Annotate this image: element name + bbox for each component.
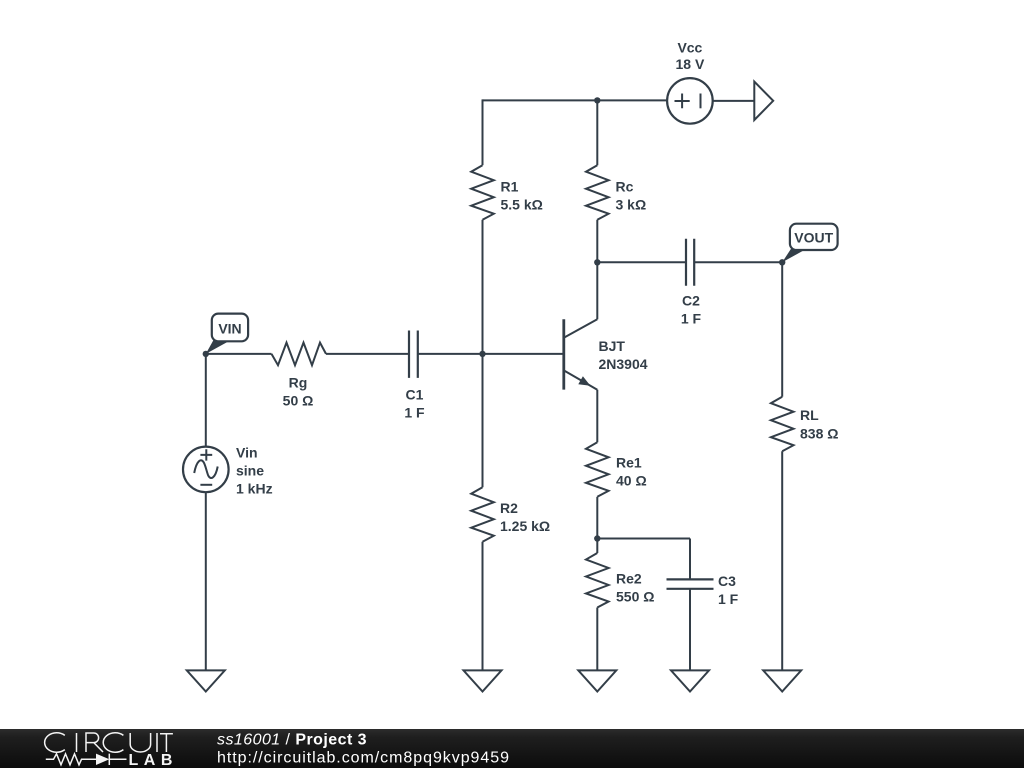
svg-text:C1: C1: [406, 387, 424, 403]
svg-text:50 Ω: 50 Ω: [283, 393, 314, 409]
svg-text:1 F: 1 F: [404, 405, 425, 421]
wire C1 to base node to BJT base: [418, 353, 564, 355]
resistor R2: [471, 487, 494, 542]
wire base node to R2: [482, 354, 484, 487]
capacitor C3: [667, 579, 714, 588]
resistor Rc: [586, 165, 609, 220]
svg-text:1 F: 1 F: [718, 591, 739, 607]
resistor R1: [471, 165, 494, 220]
svg-text:sine: sine: [236, 463, 264, 479]
svg-text:1 F: 1 F: [681, 311, 702, 327]
ground (rotated, right of Vcc): [754, 82, 773, 120]
svg-text:40 Ω: 40 Ω: [616, 473, 647, 489]
svg-text:VIN: VIN: [218, 320, 241, 336]
svg-text:RL: RL: [800, 407, 819, 423]
wire emitter to Re1: [596, 390, 598, 443]
svg-text:2N3904: 2N3904: [599, 356, 648, 372]
wire R1 bottom to base node: [482, 220, 484, 354]
wire C3 bottom lead to ground: [689, 589, 691, 671]
svg-text:BJT: BJT: [599, 338, 626, 354]
wire Vin source to ground: [205, 492, 207, 670]
svg-text:838 Ω: 838 Ω: [800, 426, 838, 442]
node emitter junction: [594, 535, 600, 541]
wire Rg to C1: [326, 353, 409, 355]
resistor Re2: [586, 553, 609, 608]
wire Vcc source to ground flag: [713, 100, 754, 102]
Q1 emitter lead: [564, 370, 598, 389]
svg-text:R1: R1: [501, 179, 519, 195]
capacitor C1: [409, 331, 418, 378]
wire Re1 to emitter node: [596, 497, 598, 553]
node VIN junction: [203, 351, 209, 357]
svg-text:550 Ω: 550 Ω: [616, 589, 654, 605]
ground (below R2): [464, 670, 502, 691]
svg-text:5.5 kΩ: 5.5 kΩ: [501, 197, 543, 213]
Vin plus sign: [200, 449, 212, 460]
CircuitLab logo wordmark CIRCUIT: [45, 733, 173, 752]
wire VOUT node to RL: [781, 262, 783, 396]
svg-text:3 kΩ: 3 kΩ: [616, 197, 647, 213]
node base junction: [479, 351, 485, 357]
node junction top rail / Rc: [594, 97, 600, 103]
svg-text:C3: C3: [718, 573, 736, 589]
resistor Re1: [586, 442, 609, 497]
wire collector vertical: [596, 262, 598, 319]
svg-text:http://circuitlab.com/cm8pq9kv: http://circuitlab.com/cm8pq9kvp9459: [217, 750, 510, 767]
svg-text:R2: R2: [500, 500, 518, 516]
svg-text:Vin: Vin: [236, 445, 258, 461]
Vin minus sign: [200, 484, 212, 486]
svg-text:Re2: Re2: [616, 571, 642, 587]
wire top rail from R1 top to Vcc source: [483, 99, 667, 101]
wire C3 top lead: [689, 539, 691, 580]
ground (below Vin): [187, 670, 225, 691]
wire VIN node to Rg: [206, 353, 272, 355]
Q1 emitter arrow: [578, 376, 590, 386]
wire C2 to VOUT node: [694, 261, 782, 263]
wire Rc bottom to collector node: [596, 220, 598, 263]
wire top rail to R1: [482, 99, 484, 165]
Vin sine wave: [194, 460, 218, 478]
wire top rail to Rc: [596, 100, 598, 165]
resistor RL: [771, 397, 794, 452]
wire RL to ground: [781, 451, 783, 670]
svg-text:Rg: Rg: [289, 375, 308, 391]
Q1 base bar: [562, 319, 565, 389]
wire emitter node to C3: [597, 538, 690, 540]
capacitor C2: [686, 239, 694, 286]
svg-text:C2: C2: [682, 293, 700, 309]
V1 plus sign: [675, 94, 690, 109]
svg-text:Re1: Re1: [616, 455, 642, 471]
wire collector node to C2: [597, 261, 686, 263]
CircuitLab logo resistor-diode glyph: [46, 754, 127, 765]
transistor Q1 BJT 2N3904: [564, 262, 598, 389]
node collector junction: [594, 259, 600, 265]
svg-text:Rc: Rc: [616, 179, 634, 195]
node flag VIN: [206, 314, 248, 354]
voltage source Vin (sine): [183, 447, 229, 493]
V1 minus bar: [700, 94, 702, 109]
svg-text:18 V: 18 V: [675, 56, 704, 72]
svg-text:ss16001 / Project 3: ss16001 / Project 3: [217, 732, 367, 749]
svg-text:1 kHz: 1 kHz: [236, 481, 273, 497]
svg-text:Vcc: Vcc: [677, 40, 702, 56]
wire Re2 to ground: [596, 608, 598, 671]
node flag VOUT: [782, 224, 837, 263]
wire VIN node down to Vin source: [205, 354, 207, 447]
svg-text:1.25 kΩ: 1.25 kΩ: [500, 518, 550, 534]
wire R2 bottom to ground: [482, 542, 484, 671]
node VOUT junction: [779, 259, 785, 265]
voltage source V1 Vcc circle: [667, 78, 713, 124]
resistor Rg (horizontal): [272, 343, 327, 366]
svg-text:VOUT: VOUT: [794, 230, 833, 246]
ground (below Re2): [578, 670, 616, 691]
ground (below RL): [763, 670, 801, 691]
ground (below C3): [671, 670, 709, 691]
Q1 collector lead: [564, 319, 598, 338]
svg-text:LAB: LAB: [129, 752, 178, 768]
